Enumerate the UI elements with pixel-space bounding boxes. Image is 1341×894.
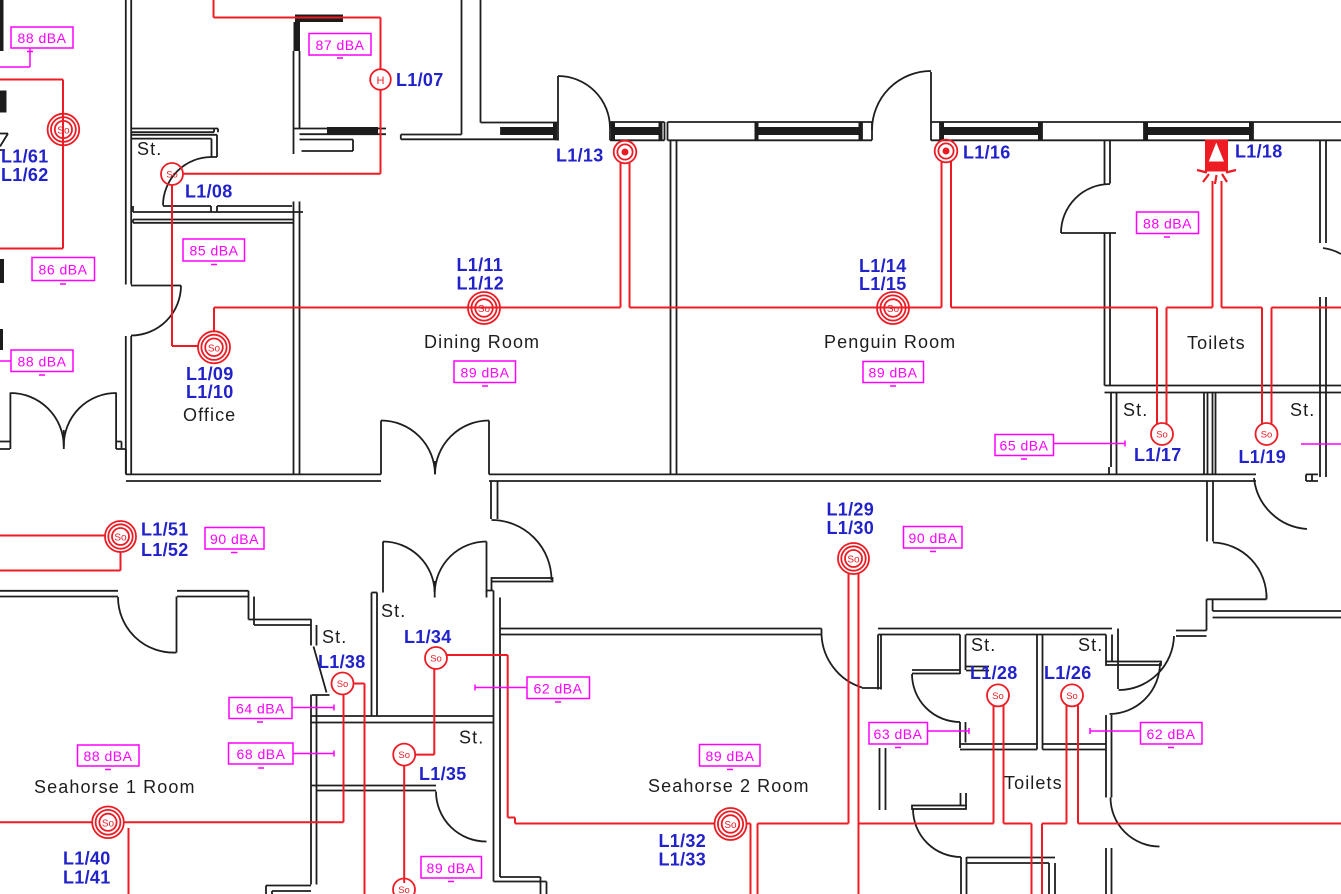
- door tick: [434, 461, 436, 474]
- door arc: [913, 809, 961, 857]
- wire: [294, 51, 300, 154]
- St rooms upper right walls: [1109, 393, 1216, 475]
- svg-text:St.: St.: [1123, 400, 1148, 420]
- dBA box 89 dining: [454, 361, 516, 386]
- door leaf: [930, 72, 932, 141]
- svg-text:L1/40: L1/40: [63, 849, 111, 869]
- sounder bottom edge: [393, 879, 415, 894]
- window bar: [756, 127, 862, 135]
- dBA box 89 seahorse2: [700, 745, 761, 770]
- wire L1/18 pair: [1213, 181, 1222, 308]
- wire: [1104, 474, 1256, 481]
- sounder L1/51 L1/52: [105, 521, 136, 552]
- wire: [1207, 599, 1213, 630]
- wire: [862, 687, 881, 689]
- door arc office: [131, 286, 181, 336]
- svg-text:L1/13: L1/13: [556, 146, 604, 166]
- wire pair down: [1032, 824, 1043, 894]
- wire: [126, 0, 131, 474]
- St L1/26 east doors: [1106, 629, 1174, 715]
- wire: [961, 793, 967, 806]
- wire: [1061, 232, 1116, 234]
- wire: [294, 129, 387, 135]
- svg-text:L1/15: L1/15: [859, 274, 907, 294]
- wire L1/34 right: [446, 655, 516, 824]
- device L1/16: [935, 140, 958, 163]
- dBA box 88 top-left: [0, 27, 73, 67]
- wire: [131, 129, 218, 133]
- door leaf: [488, 421, 490, 475]
- svg-text:88 dBA: 88 dBA: [84, 748, 133, 764]
- sounder L1/29 L1/30: [838, 543, 869, 574]
- svg-text:Toilets: Toilets: [1004, 773, 1063, 793]
- wall fragment: [0, 91, 7, 113]
- door leaf: [176, 597, 178, 653]
- toilets bottom block walls: [880, 748, 1160, 894]
- svg-text:L1/19: L1/19: [1239, 447, 1287, 467]
- dBA box 86: [32, 258, 95, 285]
- wire: [1105, 233, 1111, 386]
- wire: [1176, 631, 1207, 637]
- wire: [500, 629, 822, 635]
- right edge wall: [1320, 140, 1341, 477]
- sounder L1/14 L1/15: [877, 292, 909, 324]
- svg-text:H: H: [377, 75, 385, 87]
- seahorse1 SE walls: [266, 786, 487, 894]
- dBA box 62 middle: [475, 677, 590, 702]
- wire: [960, 722, 966, 748]
- dBA box 88 toilets: [1137, 212, 1199, 237]
- sounder L1/09 L1/10: [198, 331, 230, 363]
- wire: [1109, 393, 1117, 475]
- wire seahorse2 bus: [515, 824, 1341, 894]
- wire: [266, 886, 272, 894]
- dBA box 62 right: [1090, 723, 1202, 748]
- wall fragment: [0, 329, 3, 350]
- svg-text:Seahorse 2 Room: Seahorse 2 Room: [648, 776, 810, 796]
- sounder L1/61 L1/62: [48, 114, 80, 146]
- window bar: [327, 127, 378, 135]
- svg-text:87 dBA: 87 dBA: [316, 37, 365, 53]
- corridor right of St area / door to lower right room: [1207, 478, 1307, 599]
- svg-text:85 dBA: 85 dBA: [190, 243, 239, 259]
- svg-text:68 dBA: 68 dBA: [237, 746, 286, 762]
- door arc seahorse1: [118, 597, 177, 653]
- wire loop L1/61: [0, 80, 63, 249]
- sounder L1/35: [393, 744, 415, 766]
- svg-text:So: So: [887, 304, 900, 315]
- wire: [125, 449, 127, 474]
- door arc: [10, 393, 63, 446]
- divider dining/penguin: [671, 140, 677, 474]
- svg-text:L1/51: L1/51: [141, 520, 189, 540]
- wire st bottom: [960, 744, 1106, 750]
- svg-text:L1/28: L1/28: [970, 663, 1018, 683]
- svg-text:So: So: [1156, 429, 1168, 440]
- wire: [481, 122, 559, 124]
- door leaf diagonal: [312, 647, 330, 696]
- wire: [126, 474, 381, 481]
- wire: [878, 635, 881, 690]
- dBA box 88 left: [0, 350, 73, 375]
- wire: [461, 0, 463, 135]
- dBA box 88 seahorse1: [78, 745, 140, 770]
- svg-text:L1/14: L1/14: [859, 256, 907, 276]
- wire: [960, 629, 1112, 635]
- svg-text:So: So: [992, 691, 1004, 702]
- seahorse2 bottom-left corner walls: [494, 877, 547, 894]
- sounder L1/40 L1/41: [92, 807, 124, 839]
- leader L1/19: [1301, 443, 1341, 445]
- door leaf: [557, 76, 559, 141]
- svg-text:L1/32: L1/32: [659, 831, 707, 851]
- door arc: [912, 674, 960, 722]
- wall fragment: [0, 259, 4, 283]
- dBA box 89 penguin: [863, 362, 924, 387]
- wire L1/08 to H loop: [183, 0, 381, 174]
- svg-text:90 dBA: 90 dBA: [909, 530, 958, 546]
- svg-text:88 dBA: 88 dBA: [18, 354, 67, 370]
- svg-text:L1/10: L1/10: [186, 382, 234, 402]
- door leaf: [1106, 662, 1161, 666]
- svg-text:Seahorse 1 Room: Seahorse 1 Room: [34, 777, 196, 797]
- svg-text:So: So: [114, 533, 127, 544]
- svg-text:L1/34: L1/34: [404, 627, 452, 647]
- svg-text:89 dBA: 89 dBA: [427, 860, 476, 876]
- wire: [489, 474, 1104, 481]
- sounder L1/38: [332, 673, 354, 695]
- dBA box 89 toilets bottom: [421, 857, 482, 882]
- walls top chase: [401, 0, 558, 139]
- wire: [133, 220, 294, 223]
- wire: [610, 122, 665, 140]
- wire: [1106, 848, 1112, 894]
- svg-text:89 dBA: 89 dBA: [869, 365, 918, 381]
- corridor south right jamb: [487, 481, 553, 882]
- svg-text:L1/11: L1/11: [457, 255, 504, 275]
- wire: [1207, 481, 1213, 542]
- wire L1/08 drop: [172, 185, 199, 346]
- wire L1/13 pair: [621, 163, 630, 308]
- walls 87dBA room: [294, 15, 387, 155]
- heat detector H L1/07: [370, 69, 391, 90]
- door arc: [558, 76, 610, 128]
- dBA box 64: [229, 698, 334, 723]
- svg-text:So: So: [430, 653, 442, 664]
- wire: [1213, 393, 1216, 475]
- svg-text:Penguin Room: Penguin Room: [824, 332, 956, 352]
- door arc st right bottom: [1254, 478, 1307, 529]
- wire L1/34 to L1/35: [415, 669, 435, 755]
- svg-text:88 dBA: 88 dBA: [1143, 216, 1192, 232]
- svg-text:Dining Room: Dining Room: [424, 332, 540, 352]
- svg-text:88 dBA: 88 dBA: [18, 30, 67, 46]
- svg-text:L1/38: L1/38: [318, 652, 366, 672]
- wire: [177, 591, 249, 597]
- svg-text:L1/26: L1/26: [1044, 663, 1092, 683]
- wall fragment: [0, 0, 4, 51]
- dBA box 85: [183, 239, 245, 265]
- wire L1/40 drop: [128, 828, 130, 894]
- wire: [967, 858, 1056, 894]
- wire: [1106, 635, 1112, 662]
- wire: [249, 620, 312, 626]
- svg-text:65 dBA: 65 dBA: [1000, 438, 1049, 454]
- door arc: [1111, 798, 1160, 847]
- walls-left-block: [126, 0, 303, 474]
- svg-text:62 dBA: 62 dBA: [1147, 726, 1196, 742]
- wire: [311, 620, 317, 885]
- svg-text:89 dBA: 89 dBA: [461, 365, 510, 381]
- sounder L1/34: [425, 647, 447, 669]
- beacon L1/18: [1197, 140, 1236, 185]
- door arc: [1119, 636, 1175, 690]
- wire: [1204, 393, 1208, 475]
- svg-text:L1/30: L1/30: [827, 518, 875, 538]
- window bar: [501, 127, 556, 135]
- door arc: [64, 393, 116, 445]
- svg-text:L1/08: L1/08: [185, 182, 233, 202]
- wire: [480, 0, 482, 123]
- wire: [300, 140, 354, 152]
- sounder L1/26: [1061, 684, 1083, 706]
- svg-text:L1/12: L1/12: [457, 274, 505, 294]
- svg-text:So: So: [398, 885, 410, 894]
- wire: [401, 135, 558, 140]
- svg-text:St.: St.: [459, 728, 484, 748]
- wire: [372, 593, 378, 717]
- wire: [1117, 629, 1119, 690]
- wire: [1320, 140, 1326, 243]
- svg-text:So: So: [724, 820, 737, 831]
- svg-text:86 dBA: 86 dBA: [39, 262, 88, 278]
- wire: [1320, 297, 1326, 477]
- wire: [966, 667, 989, 671]
- svg-text:St.: St.: [322, 627, 347, 647]
- double door dining north: [381, 420, 489, 474]
- wire main bus: [214, 307, 1341, 309]
- wire: [880, 748, 886, 810]
- wire L1/19 pair: [1262, 308, 1272, 425]
- svg-text:L1/35: L1/35: [419, 764, 467, 784]
- door arc: [435, 420, 489, 474]
- wire: [133, 206, 303, 212]
- lobby and st rooms bottom middle: [912, 629, 1112, 798]
- door arc: [1061, 184, 1110, 233]
- svg-text:90 dBA: 90 dBA: [210, 531, 259, 547]
- St L1/38 room: [311, 593, 494, 885]
- svg-text:Toilets: Toilets: [1187, 333, 1246, 353]
- wire: [311, 786, 436, 791]
- wire: [131, 135, 217, 157]
- wire seahorse1 bus: [0, 694, 344, 822]
- svg-text:Office: Office: [183, 405, 236, 425]
- wire L1/51 loop: [0, 536, 121, 571]
- double door south: [383, 542, 487, 598]
- svg-text:L1/07: L1/07: [396, 70, 444, 90]
- door arc: [822, 635, 863, 688]
- door arc: [1110, 663, 1161, 714]
- door leaf: [380, 421, 382, 475]
- door leaf: [486, 542, 488, 593]
- svg-text:L1/62: L1/62: [1, 165, 49, 185]
- door leaf: [9, 393, 11, 450]
- seahorse2 top wall: [500, 629, 961, 690]
- svg-text:So: So: [1066, 691, 1078, 702]
- svg-text:63 dBA: 63 dBA: [874, 726, 923, 742]
- door arc: [381, 421, 435, 475]
- svg-text:64 dBA: 64 dBA: [236, 701, 285, 717]
- wall fragment: [0, 134, 8, 151]
- sounder L1/08: [161, 163, 183, 185]
- wire: [1106, 715, 1112, 798]
- wire L1/38 right: [353, 684, 365, 894]
- svg-text:St.: St.: [381, 601, 406, 621]
- toilets upper bottom wall: [1105, 386, 1341, 393]
- wire L1/26 pair: [1067, 706, 1079, 824]
- svg-text:St.: St.: [137, 139, 162, 159]
- door arc: [492, 520, 552, 580]
- wire: [491, 481, 498, 519]
- svg-text:62 dBA: 62 dBA: [534, 681, 583, 697]
- wire: [116, 442, 126, 450]
- sounder L1/11 L1/12: [468, 292, 500, 324]
- svg-text:So: So: [847, 555, 860, 566]
- svg-text:L1/16: L1/16: [963, 143, 1011, 163]
- dBA box 65: [995, 435, 1125, 460]
- device L1/13: [614, 141, 637, 164]
- wire: [1207, 598, 1267, 600]
- sounder L1/28: [987, 684, 1009, 706]
- door arc: [436, 792, 487, 842]
- svg-text:L1/33: L1/33: [659, 850, 707, 870]
- wire: [878, 629, 960, 635]
- wire: [1213, 611, 1341, 618]
- wire L1/29 pair: [849, 573, 859, 894]
- dBA box 90 east: [904, 527, 963, 552]
- sounder L1/17: [1151, 423, 1173, 445]
- svg-text:L1/17: L1/17: [1134, 445, 1182, 465]
- wire L1/17 pair: [1157, 308, 1167, 425]
- door leaf: [912, 806, 966, 810]
- svg-text:So: So: [166, 169, 178, 180]
- wire: [294, 202, 300, 475]
- svg-text:89 dBA: 89 dBA: [706, 748, 755, 764]
- stepped walls bottom right: [1176, 599, 1341, 636]
- corridor top wall: [126, 474, 1318, 481]
- door tick: [434, 581, 436, 598]
- svg-text:So: So: [398, 750, 410, 761]
- svg-text:So: So: [102, 818, 115, 829]
- wire: [668, 122, 873, 140]
- svg-text:So: So: [208, 343, 221, 354]
- dBA box 63: [869, 723, 969, 748]
- wire: [372, 592, 378, 594]
- window bar: [940, 127, 1042, 135]
- wire: [541, 877, 547, 894]
- wire: [961, 857, 967, 894]
- window bar: [1144, 127, 1253, 135]
- wire: [487, 582, 494, 598]
- svg-text:L1/52: L1/52: [141, 540, 189, 560]
- wire: [1105, 140, 1111, 184]
- wire: [494, 877, 547, 882]
- svg-text:So: So: [57, 126, 70, 137]
- dBA box 90: [205, 528, 264, 553]
- wire L1/16 pair: [942, 162, 952, 308]
- entrance double door top-left: [0, 393, 126, 475]
- door leaf: [1266, 594, 1268, 599]
- svg-text:St.: St.: [971, 635, 996, 655]
- window bar: [614, 127, 662, 135]
- wire: [249, 591, 255, 625]
- door leaf: [382, 542, 384, 593]
- wire: [960, 635, 966, 675]
- door arc: [435, 542, 487, 593]
- wire: [1306, 474, 1318, 481]
- door arc: [1213, 543, 1267, 599]
- door arc L1/08: [163, 157, 212, 206]
- wire: [0, 442, 10, 450]
- left edge fragments: [0, 0, 8, 350]
- wire st divider: [1037, 635, 1043, 750]
- sounder L1/32 L1/33: [715, 808, 747, 840]
- svg-text:So: So: [478, 304, 491, 315]
- svg-text:St.: St.: [1078, 635, 1103, 655]
- door tick: [63, 430, 65, 449]
- window bar: [295, 15, 343, 23]
- svg-text:L1/29: L1/29: [827, 500, 875, 520]
- svg-text:L1/09: L1/09: [186, 364, 234, 384]
- top exterior wall with windows: [481, 71, 1341, 141]
- wire L1/28 pair: [994, 706, 1004, 824]
- wire L1/35 drop: [403, 765, 405, 883]
- wire office to bus: [213, 308, 215, 332]
- corridor south wall: [0, 591, 312, 653]
- door arc: [1323, 248, 1341, 254]
- door arc: [383, 542, 435, 593]
- wire: [912, 670, 960, 674]
- door leaf: [115, 393, 117, 450]
- door arc: [872, 71, 931, 130]
- wire: [931, 122, 1341, 140]
- dBA box 87: [309, 34, 371, 59]
- wire: [311, 716, 494, 723]
- wire: [494, 598, 501, 882]
- window bar: [294, 22, 301, 51]
- svg-text:So: So: [337, 679, 349, 690]
- svg-text:L1/41: L1/41: [63, 868, 111, 888]
- sounder L1/19: [1256, 423, 1278, 445]
- wire: [266, 886, 311, 892]
- door leaf: [492, 578, 553, 582]
- svg-text:L1/61: L1/61: [1, 147, 49, 167]
- wall penguin/toilets: [1061, 140, 1116, 386]
- svg-text:St.: St.: [1290, 400, 1315, 420]
- svg-text:So: So: [1261, 429, 1273, 440]
- wire: [0, 591, 118, 597]
- svg-text:L1/18: L1/18: [1235, 142, 1283, 162]
- dBA box 68: [229, 743, 335, 768]
